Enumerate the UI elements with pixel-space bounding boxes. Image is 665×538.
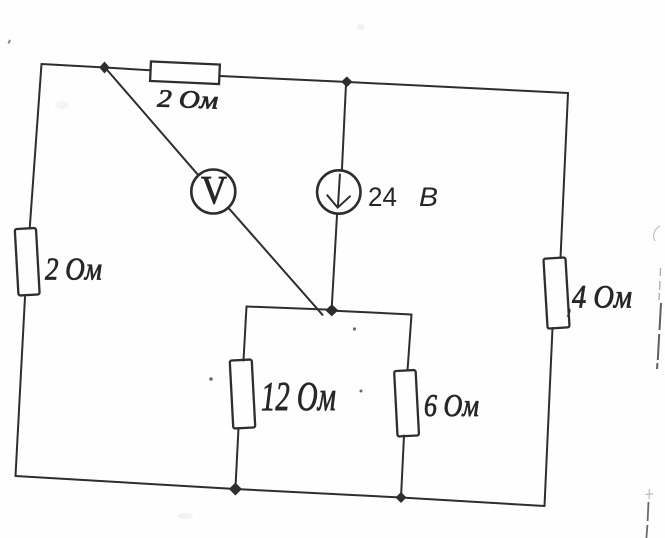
wire node B to source E1 xyxy=(342,84,346,170)
node C junction dot xyxy=(325,304,338,316)
wire node A to resistor R1 xyxy=(105,68,150,71)
scan comma under 4 Ohm label xyxy=(567,307,571,318)
wire left side up to R2 xyxy=(16,297,26,476)
resistor R3 12 Ohm (middle-left vertical) xyxy=(230,359,256,428)
svg-text:В: В xyxy=(419,182,438,212)
wire R1 to node B xyxy=(220,76,348,82)
wire voltmeter to node C xyxy=(228,208,322,315)
node E junction dot xyxy=(396,492,407,503)
scan artifact: dark broken edge line lower xyxy=(646,502,648,538)
wire R4 to bottom-right corner xyxy=(545,328,553,506)
svg-text:2 Ом: 2 Ом xyxy=(45,251,102,287)
wire R2 to top-left corner xyxy=(30,64,42,229)
node D junction dot xyxy=(229,483,242,496)
scan artifact: faint cross mark xyxy=(646,489,654,499)
wire right side down to R4 xyxy=(561,93,569,258)
svg-text:V: V xyxy=(201,168,227,213)
wire node B to top-right corner xyxy=(348,82,568,93)
wire bottom left segment xyxy=(16,476,236,489)
svg-text:6 Ом: 6 Ом xyxy=(424,387,479,423)
scan speck near node C xyxy=(353,327,356,330)
wire R5 to bottom node E xyxy=(401,436,404,498)
scan artifact: faint dotted edge xyxy=(659,268,661,300)
svg-text:2 Ом: 2 Ом xyxy=(157,86,219,115)
resistor R4 4 Ohm (right vertical) xyxy=(543,257,569,328)
scan speck right of 12 Ohm label xyxy=(360,390,363,393)
wire right branch down to R5 xyxy=(408,315,412,371)
voltmeter U1 circle xyxy=(191,170,235,214)
wire top-left corner to node A xyxy=(42,64,106,68)
source E1 24V circle xyxy=(317,170,360,213)
scan artifact: dark broken edge line xyxy=(657,303,661,369)
wire bottom right segment xyxy=(401,498,545,507)
scan speck top-left xyxy=(8,39,11,43)
scan artifact: faint curve top right xyxy=(654,226,660,241)
scan speck left of 12 Ohm label xyxy=(209,377,213,381)
wire R3 to bottom node D xyxy=(235,428,238,489)
wire source E1 to node C xyxy=(332,214,337,305)
svg-text:12 Ом: 12 Ом xyxy=(261,373,336,419)
scan smudge faint left xyxy=(55,101,69,109)
resistor R1 2 Ohm (top horizontal) xyxy=(150,61,220,84)
resistor R5 6 Ohm (middle-right vertical) xyxy=(394,370,419,437)
svg-text:24: 24 xyxy=(368,182,397,212)
resistor R2 2 Ohm (left vertical) xyxy=(15,228,40,296)
scan smudge faint bottom-left xyxy=(177,513,193,519)
wire bottom middle segment xyxy=(235,489,401,498)
scan smudge faint top-middle xyxy=(357,24,365,30)
wire node C left branch horizontal xyxy=(247,307,332,310)
wire left branch down to R3 xyxy=(244,307,247,361)
node A junction dot xyxy=(99,62,110,74)
svg-text:4 Ом: 4 Ом xyxy=(572,280,632,316)
source E1 arrow xyxy=(338,175,340,206)
wire node A to voltmeter xyxy=(105,68,198,176)
wire node C right branch horizontal xyxy=(332,311,412,315)
node B junction dot xyxy=(341,76,352,87)
